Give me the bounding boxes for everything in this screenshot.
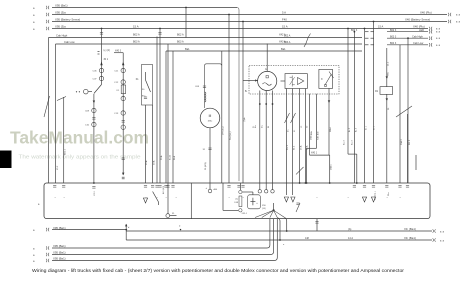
- fuse top wire to potentiometer: [242, 191, 253, 193]
- harness fan-out: [273, 209, 275, 211]
- dashed box generator unit G1: [249, 66, 339, 95]
- svg-text:X95 (Ba1): X95 (Ba1): [55, 4, 68, 8]
- panel internal wire to fuse: [222, 183, 224, 210]
- svg-text:a a: a a: [440, 239, 445, 242]
- wire vertical x173: [172, 51, 174, 183]
- node bottom line L1: [52, 229, 126, 231]
- wire temp sensor output: [328, 89, 330, 156]
- svg-text:X9. (Ba1): X9. (Ba1): [404, 227, 416, 231]
- wire line1 corner drop at x=237: [237, 8, 239, 182]
- riser leg to L2: [277, 218, 280, 241]
- wire long vertical x160 from line4: [159, 28, 161, 30]
- junction dot wire 93.9 on panel edge: [93, 182, 95, 184]
- svg-text:X95 4: X95 4: [242, 213, 248, 215]
- svg-text:B+ A: B+ A: [169, 155, 172, 160]
- wire S1 output to panel: [93, 94, 95, 183]
- wire above alternator: [266, 44, 268, 72]
- zener diode glyph: [290, 76, 295, 87]
- wire B X40-3: [114, 52, 123, 54]
- svg-text:1: 1: [365, 197, 367, 198]
- wire tall x348 with jog: [347, 28, 349, 30]
- svg-text:a a: a a: [436, 37, 441, 40]
- splice circle below S1: [92, 108, 96, 112]
- node Ba1 line: [166, 50, 362, 52]
- wire vertical x229: [228, 15, 230, 184]
- svg-text:X95 (3)a: X95 (3)a: [55, 11, 66, 15]
- svg-text:15 A: 15 A: [145, 160, 148, 165]
- wire K1 out a: [145, 105, 147, 183]
- svg-text:a a: a a: [436, 31, 441, 34]
- connector pin pairs on right boundary lines: [365, 37, 369, 39]
- stub x317 panel to L1: [316, 219, 318, 231]
- switch contacts inside panel right: [296, 203, 300, 212]
- svg-text:1: 1: [387, 197, 389, 198]
- wire S1 branch from bus line 4: [101, 28, 103, 30]
- wire x386.8 with relay R1: [386, 48, 388, 87]
- electrical panel A1 box: [44, 183, 430, 219]
- svg-text:(14): (14): [262, 208, 266, 210]
- wire tall x354.4: [354, 31, 356, 33]
- black marker square: [0, 151, 12, 169]
- svg-text:Wiring diagram - lift trucks w: Wiring diagram - lift trucks with fixed …: [32, 268, 405, 273]
- svg-text:(+) (1): (+) (1): [104, 50, 111, 52]
- node X95 battery sense bus line 3: [52, 21, 447, 23]
- panel divider line: [190, 183, 192, 219]
- open arrow terminal inside panel: [143, 198, 147, 203]
- svg-text:W A: W A: [173, 155, 176, 160]
- svg-text:B02 3: B02 3: [390, 29, 397, 32]
- svg-text:B+ 3: B+ 3: [344, 140, 346, 145]
- svg-text:X95 1: X95 1: [94, 190, 96, 196]
- riser leg to L1 right: [285, 218, 287, 232]
- svg-text:1: 1: [243, 197, 245, 198]
- svg-text:1: 1: [400, 197, 402, 198]
- svg-text:Ba1: Ba1: [185, 47, 190, 51]
- wire jump slash mid right: [296, 167, 304, 174]
- node L1 right segment: [126, 230, 432, 232]
- svg-text:B-: B-: [245, 91, 248, 93]
- svg-text:X40 1: X40 1: [311, 153, 318, 155]
- svg-text:TakeManual.com: TakeManual.com: [10, 128, 149, 148]
- svg-text:a a: a a: [436, 44, 441, 47]
- sheet arrows for 364/373: [362, 197, 366, 202]
- wire x407.5 lower: [407, 114, 409, 183]
- plus terminal circle: [209, 183, 211, 189]
- wire x306.6 lower: [306, 148, 308, 183]
- wire regulator terminal 4: [304, 89, 306, 184]
- wire regulator terminal 3: [299, 89, 301, 184]
- node bottom line L4: [52, 219, 274, 255]
- svg-text:Battery +: Battery +: [374, 190, 377, 200]
- svg-text:a a: a a: [456, 14, 461, 17]
- svg-text:X43 A: X43 A: [279, 41, 286, 44]
- svg-text:W1 3: W1 3: [409, 139, 411, 145]
- node bottom line L5: [52, 219, 277, 261]
- svg-text:15 A: 15 A: [378, 25, 383, 29]
- svg-text:Cab High: Cab High: [412, 34, 423, 38]
- wire alternator terminal 2: [265, 91, 267, 190]
- svg-text:a a: a a: [440, 230, 445, 233]
- switch blade inside panel: [153, 192, 159, 203]
- svg-text:15 A: 15 A: [282, 25, 288, 29]
- svg-text:B+ (M1): B+ (M1): [222, 126, 225, 135]
- wire below M1 to panel: [209, 128, 211, 183]
- svg-text:X40 3: X40 3: [115, 51, 122, 53]
- svg-text:28A 1: 28A 1: [329, 126, 332, 132]
- junction L1 to L2: [125, 230, 127, 240]
- svg-text:B03 A: B03 A: [177, 41, 184, 44]
- potentiometer box inside panel: [248, 195, 261, 209]
- wire jump slash x63: [57, 97, 66, 101]
- stub from panel to L1 with arrow: [125, 224, 127, 230]
- svg-text:X95 (Ba1): X95 (Ba1): [53, 244, 66, 248]
- splice circle C06: [99, 68, 103, 72]
- svg-text:X95 (Ba1): X95 (Ba1): [53, 257, 66, 261]
- wire x63.7: [63, 97, 65, 183]
- temp sensor glyph: [325, 74, 332, 85]
- svg-text:Ba1: Ba1: [281, 47, 286, 51]
- panel pins along top edge: [53, 185, 56, 187]
- wire jump slash over left box edges: [44, 96, 50, 117]
- svg-text:B02 A: B02 A: [177, 34, 184, 37]
- terminal 31 circle: [166, 214, 170, 218]
- svg-text:30 1: 30 1: [104, 59, 109, 61]
- stub into amp box: [281, 80, 286, 82]
- splice circle C07: [99, 76, 103, 80]
- svg-text:30 A: 30 A: [160, 155, 163, 160]
- short LED line top right: [387, 31, 428, 33]
- wire from unit bottom x316.5 jog: [316, 94, 318, 149]
- amplifier triangle: [298, 78, 304, 85]
- terminal circles in panel: [258, 190, 261, 193]
- svg-text:B02 A: B02 A: [133, 34, 140, 37]
- wire tall x364.5 from bus line 4: [364, 28, 366, 30]
- fuse F on wire B: [121, 85, 125, 94]
- wire regulator terminal 2: [292, 89, 294, 196]
- wire Ba1 right drop to M1: [221, 51, 223, 183]
- svg-text:15 A: 15 A: [300, 145, 303, 150]
- svg-text:1: 1: [229, 197, 231, 198]
- wire long vertical x157: [156, 37, 158, 184]
- X40-1 jog horizontal: [310, 154, 330, 156]
- svg-text:LED: LED: [419, 28, 424, 32]
- svg-text:28A 1: 28A 1: [310, 134, 313, 140]
- svg-text:X95 (Ba1): X95 (Ba1): [53, 251, 66, 255]
- switch blade on wire 292: [291, 113, 296, 123]
- key switch S1: [84, 89, 89, 94]
- svg-text:X42 A: X42 A: [279, 34, 286, 37]
- motor M1: [200, 108, 220, 128]
- wire stub x416: [415, 155, 417, 170]
- wire Ba1 left drop: [165, 51, 167, 183]
- inductor field coil of M1: [205, 92, 206, 102]
- Cab High outer boundary box: [49, 37, 363, 39]
- node X95 bus line 1: [52, 7, 237, 9]
- wire tall x373.5 bulkhead: [373, 21, 375, 23]
- svg-text:a a: a a: [456, 21, 461, 24]
- node bottom line L3: [52, 219, 270, 248]
- svg-text:Cab Low: Cab Low: [64, 40, 75, 44]
- wire jump slash over boundary lines x307: [304, 34, 311, 48]
- wire from unit bottom x309.6: [309, 94, 311, 155]
- svg-text:B03 A: B03 A: [133, 41, 140, 44]
- wire K1 out b: [152, 105, 154, 183]
- svg-text:D+ 1: D+ 1: [287, 145, 289, 150]
- wire vertical x243 B-: [242, 22, 244, 184]
- temperature sensor box: [319, 69, 333, 88]
- wire regulator terminal 1: [285, 89, 287, 196]
- svg-text:1: 1: [348, 197, 350, 198]
- connector tick on M1 field wire: [203, 85, 206, 87]
- svg-text:X95 (Battery Sense): X95 (Battery Sense): [55, 18, 80, 22]
- node bottom line L2: [126, 239, 432, 241]
- regulator amplifier box: [285, 74, 307, 89]
- wire alternator terminal 3: [272, 91, 274, 191]
- svg-text:B04 3: B04 3: [390, 42, 397, 45]
- motor M1 loop top: [205, 64, 222, 108]
- switch blade on wire 286: [285, 113, 290, 123]
- svg-text:X95 (3)a: X95 (3)a: [55, 25, 66, 29]
- svg-text:B03 3: B03 3: [390, 35, 397, 38]
- svg-text:B01 1: B01 1: [65, 149, 67, 155]
- svg-text:(M1): (M1): [208, 121, 213, 123]
- Cab Low inner boundary box: [56, 43, 363, 45]
- svg-text:31 (M1): 31 (M1): [205, 162, 207, 170]
- svg-text:G: G: [265, 68, 267, 71]
- svg-text:X9. (Ba1): X9. (Ba1): [404, 236, 416, 240]
- svg-text:X40 (Plu): X40 (Plu): [420, 11, 432, 15]
- switch blade S1: [94, 85, 102, 94]
- relay coil R1: [380, 87, 393, 95]
- wire x329.7 lower: [329, 155, 331, 183]
- svg-text:30 A: 30 A: [153, 160, 156, 165]
- svg-text:14 A: 14 A: [348, 237, 353, 240]
- alternator G1: [258, 71, 277, 90]
- svg-text:B+ 3: B+ 3: [351, 140, 353, 145]
- wire stub from line1 x186: [185, 7, 187, 9]
- svg-text:Cab High: Cab High: [56, 34, 68, 38]
- wire alternator terminal 1: [259, 91, 261, 191]
- wire x356.8 lower: [356, 154, 358, 183]
- svg-text:F40: F40: [282, 18, 287, 22]
- svg-text:1: 1: [64, 197, 66, 198]
- svg-text:30 A: 30 A: [306, 145, 309, 150]
- svg-text:M: M: [209, 114, 212, 118]
- svg-text:1: 1: [55, 197, 57, 198]
- relay K1 box: [142, 65, 153, 106]
- svg-text:1: 1: [317, 197, 319, 198]
- svg-text:1: 1: [157, 197, 159, 198]
- svg-text:Cab Low: Cab Low: [413, 41, 423, 45]
- svg-text:28A 1: 28A 1: [330, 164, 333, 170]
- svg-text:B+ (G1): B+ (G1): [229, 131, 232, 140]
- svg-text:(1): (1): [236, 199, 239, 201]
- svg-text:15 A: 15 A: [133, 25, 139, 29]
- wire vertical x168: [167, 44, 169, 183]
- stub B- into alternator box: [243, 80, 258, 82]
- svg-text:X95 (Ba1): X95 (Ba1): [53, 226, 66, 230]
- relay K1 contact blade: [145, 72, 147, 80]
- svg-text:1: 1: [176, 197, 178, 198]
- svg-text:5 A: 5 A: [282, 11, 286, 15]
- wire jump diagonal 400 to 409: [396, 106, 412, 117]
- svg-text:(A): (A): [348, 228, 352, 231]
- svg-text:X40 1: X40 1: [318, 134, 320, 140]
- svg-text:X40 (Battery Sense): X40 (Battery Sense): [405, 18, 430, 22]
- node X95 bus line 4: [52, 28, 428, 30]
- svg-text:A01 (M1): A01 (M1): [162, 185, 165, 194]
- node X95 bus line 2: [52, 14, 447, 16]
- sheet arrows inside panel: [284, 197, 288, 202]
- svg-text:30A 3: 30A 3: [400, 139, 403, 145]
- wire to terminal 31: [167, 183, 169, 214]
- fuse F48 inside panel: [239, 196, 242, 207]
